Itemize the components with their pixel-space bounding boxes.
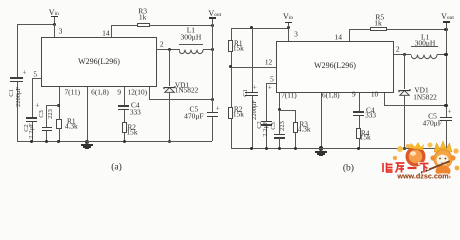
svg-text:www.dzsc.com: www.dzsc.com <box>396 172 448 181</box>
